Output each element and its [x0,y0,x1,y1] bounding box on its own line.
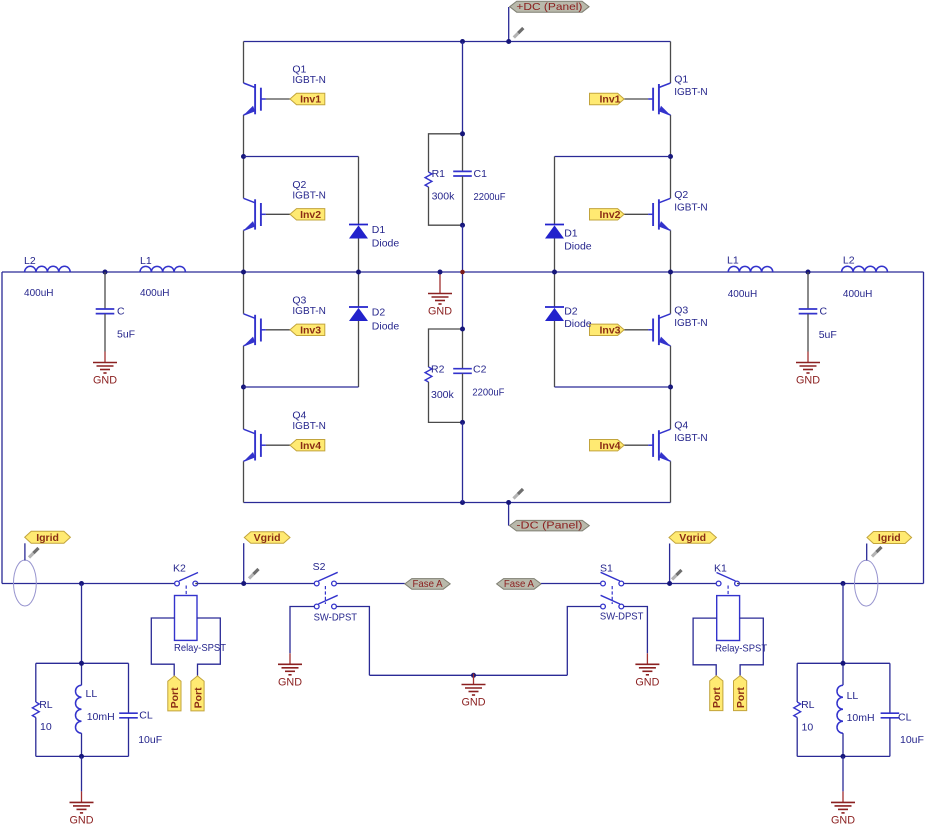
junction load top left [79,661,84,666]
svg-text:400uH: 400uH [140,287,170,299]
wire bottom center rail [369,674,567,676]
svg-text:LL: LL [86,688,98,700]
wire -DC stub [508,503,510,526]
svg-text:Fase A: Fase A [413,578,443,590]
probe marker Igrid left [29,548,39,558]
svg-text:C: C [117,306,125,318]
junction R2C2 top [460,327,465,332]
svg-text:+DC (Panel): +DC (Panel) [516,1,582,13]
svg-text:Inv2: Inv2 [300,209,321,221]
svg-text:GND: GND [93,375,117,387]
svg-text:400uH: 400uH [24,287,54,299]
port flag K2 left [168,676,181,711]
svg-text:K2: K2 [173,563,186,575]
wire D1 chain upper [358,157,360,225]
net Inv3 left [290,324,325,336]
net Inv1 right [590,93,625,105]
wire R1 branch bottom [429,187,463,225]
relay K1 switch [714,563,739,586]
probe Igrid left ellipse [14,560,37,606]
wire S2 lower-left to ground [290,607,314,654]
net Igrid right [867,532,912,545]
junction grid left load [79,581,84,586]
wire grid rail left segment [2,583,175,585]
net Inv4 left [290,440,325,452]
wire R2 branch top [429,329,463,367]
svg-text:Port: Port [192,687,204,709]
capacitor C2 2200uF [453,364,504,399]
svg-text:GND: GND [462,697,486,709]
wire grid rail S2-FaseA [336,583,404,585]
inductor L2 left 400uH [24,255,70,299]
net +DC (Panel) [510,1,589,13]
svg-text:Inv1: Inv1 [300,94,321,106]
svg-text:Inv4: Inv4 [300,440,321,452]
svg-text:Inv4: Inv4 [599,440,620,452]
svg-text:Q2: Q2 [674,189,688,201]
switch S2 SW-DPST [313,561,358,623]
svg-text:2200uF: 2200uF [472,386,504,398]
ground left filter [93,352,117,387]
wire D2 chain lower right [554,321,556,387]
junction load top right [841,661,846,666]
svg-text:GND: GND [831,815,855,827]
port flag K1 right [734,676,747,711]
svg-text:10mH: 10mH [847,712,875,724]
inductor LL 10mH left [76,663,115,756]
wire C2 upper lead [462,329,464,369]
svg-text:Diode: Diode [564,318,592,330]
svg-text:IGBT-N: IGBT-N [674,86,708,98]
wire K1 bracket [693,618,763,676]
svg-text:K1: K1 [714,563,727,575]
capacitor C left 5uF [96,306,135,341]
svg-text:300k: 300k [431,389,455,401]
wire C1 lower lead [462,176,464,225]
net -DC (Panel) [510,520,590,532]
svg-text:Q4: Q4 [674,420,688,432]
resistor RL 10 left [32,663,52,756]
probe marker Vgrid right [672,570,682,580]
wire D2 chain lower [358,321,360,387]
svg-text:D2: D2 [564,306,578,318]
net Fase A right [497,578,541,590]
junction R1C1 bottom [460,223,465,228]
wire Vgrid right stub [669,544,671,584]
wire D2 bottom to right bridge [555,386,671,388]
ground load left [70,791,94,826]
probe marker Vgrid left [249,569,259,579]
junction Vgrid left [241,581,246,586]
svg-text:CL: CL [898,712,912,724]
junction bottom -DC [506,500,511,505]
wire C2 lower lead [462,374,464,423]
probe marker -DC [514,489,524,499]
wire load drop left [81,584,83,664]
svg-text:Igrid: Igrid [36,532,59,544]
wire D1-D2 left [358,239,360,308]
junction top cap chain [460,39,465,44]
junction cap chain mid crossing [460,270,465,275]
ground load right [831,791,855,826]
wire S2 lower-right down [336,607,369,676]
port flag K1 left [710,676,723,711]
wire Igrid right stub [866,544,868,561]
ground center mid rail [428,283,452,318]
svg-text:L1: L1 [727,255,739,267]
junction right bridge mid [668,270,673,275]
wire Igrid left stub [24,543,26,560]
wire grid rail K2-Vgrid [198,583,315,585]
svg-text:10uF: 10uF [900,734,924,746]
net Vgrid left [244,532,290,544]
svg-text:Inv3: Inv3 [300,324,321,336]
junction left filter node [103,270,108,275]
svg-text:Diode: Diode [564,241,592,253]
svg-text:IGBT-N: IGBT-N [674,432,708,444]
svg-text:GND: GND [635,677,659,689]
svg-text:Diode: Diode [372,238,400,250]
diode D1 right [545,225,592,253]
diode D2 right [545,306,592,331]
net Inv2 left [290,209,325,221]
net Inv4 right [590,440,625,452]
wire load box top right [797,662,890,664]
svg-text:Vgrid: Vgrid [254,532,281,544]
transistor Q2 left IGBT-N [244,157,326,273]
ground bottom center [462,674,486,709]
net Inv1 left [290,93,325,105]
svg-text:Fase A: Fase A [504,578,534,590]
ground S1 right [635,653,659,688]
inductor L1 left 400uH [140,255,185,299]
junction bottom cap chain [460,500,465,505]
wire bottom DC- rail [244,502,671,504]
inductor L1 right 400uH [727,255,773,301]
svg-text:D2: D2 [372,307,386,319]
svg-text:LL: LL [847,690,859,702]
transistor Q4 left IGBT-N [244,387,326,503]
svg-text:D1: D1 [564,228,578,240]
svg-text:CL: CL [139,710,153,722]
inductor L2 right 400uH [842,255,888,301]
svg-text:Inv2: Inv2 [599,209,620,221]
svg-text:IGBT-N: IGBT-N [292,420,326,432]
svg-text:5uF: 5uF [819,329,837,341]
net Vgrid right [669,532,716,544]
wire R1 branch top [429,134,463,172]
svg-text:IGBT-N: IGBT-N [292,74,326,86]
wire cap chain top [462,42,464,134]
junction Vgrid right [667,581,672,586]
svg-text:Relay-SPST: Relay-SPST [174,642,227,654]
wire load drop right [842,584,844,664]
wire load ground stub left [81,756,83,791]
junction grid right load [841,581,846,586]
junction R2C2 bottom [460,420,465,425]
switch S1 SW-DPST [600,563,644,623]
svg-text:300k: 300k [432,191,456,203]
ground right filter [796,352,820,387]
junction right diode chain mid [552,270,557,275]
wire mid AC rail [2,271,924,273]
svg-text:IGBT-N: IGBT-N [674,201,708,213]
probe Igrid right ellipse [855,560,878,606]
junction left bridge upper [241,154,246,159]
svg-text:10: 10 [40,721,52,733]
svg-text:L2: L2 [24,255,36,267]
svg-text:RL: RL [801,699,815,711]
svg-text:L1: L1 [140,255,152,267]
svg-text:GND: GND [70,815,94,827]
junction bottom center ground [471,673,476,678]
wire left edge [1,272,3,584]
transistor Q3 left IGBT-N [244,272,326,387]
resistor RL 10 right [794,663,815,756]
svg-text:GND: GND [428,306,452,318]
wire S1 lower-left up from rail [567,607,600,676]
svg-text:SW-DPST: SW-DPST [314,611,358,623]
svg-text:IGBT-N: IGBT-N [674,317,708,329]
junction left bridge mid [241,270,246,275]
net Igrid left [25,531,71,544]
port flag K2 right [191,676,204,711]
svg-text:2200uF: 2200uF [474,191,506,203]
svg-text:10uF: 10uF [138,734,162,746]
relay K1 coil Relay-SPST [715,586,768,655]
net Fase A left [405,578,450,590]
wire cap chain bottom [462,422,464,502]
load left block [0,0,1,1]
wire cap chain middle [462,225,464,329]
junction left diode chain mid [356,270,361,275]
diode D2 left [349,307,399,333]
probe marker Igrid right [872,547,882,557]
capacitor CL 10uF right [881,663,924,756]
capacitor C1 2200uF [453,168,505,203]
wire right edge [923,272,925,584]
svg-text:L2: L2 [843,255,855,267]
svg-text:Q3: Q3 [674,304,688,316]
ground center stub [439,272,441,283]
svg-text:GND: GND [796,375,820,387]
wire Vgrid left stub [243,543,245,583]
svg-text:Vgrid: Vgrid [679,532,706,544]
wire load box top left [36,662,129,664]
svg-text:-DC (Panel): -DC (Panel) [516,520,582,532]
junction left bridge lower [241,385,246,390]
svg-text:Relay-SPST: Relay-SPST [715,643,768,655]
svg-text:SW-DPST: SW-DPST [600,611,644,623]
wire +DC stub [508,7,510,42]
relay K2 coil Relay-SPST [174,586,227,655]
wire load ground stub right [842,756,844,791]
capacitor C right 5uF [799,306,837,342]
wire C filter right upper lead [807,272,809,309]
ground S2 left [278,653,302,688]
wire S1 lower-right to ground [624,607,648,654]
wire load box bottom left [36,755,129,757]
junction load bottom right [841,754,846,759]
svg-text:Port: Port [169,687,181,709]
svg-text:Inv1: Inv1 [599,94,620,106]
diode D1 left [349,224,399,250]
svg-text:10mH: 10mH [87,711,115,723]
probe marker +DC [514,28,524,38]
wire left bridge to D1 top [244,156,359,158]
net Inv2 right [590,209,625,221]
wire D1-D2 right [554,239,556,308]
capacitor CL 10uF left [119,663,162,756]
junction R1C1 top [460,131,465,136]
transistor Q1 left IGBT-N [244,42,326,157]
transistor Q2 right IGBT-N [624,157,708,273]
wire grid rail FaseA-S1 [541,583,601,585]
svg-text:Port: Port [735,687,747,709]
svg-text:IGBT-N: IGBT-N [292,305,326,317]
junction right bridge lower [668,385,673,390]
wire load box bottom right [797,755,890,757]
wire D1 chain upper right [554,157,556,225]
svg-text:Q1: Q1 [674,74,688,86]
net Inv3 right [590,324,625,336]
transistor Q3 right IGBT-N [624,272,708,387]
svg-text:10: 10 [802,722,814,734]
wire C filter left lower lead [104,314,106,352]
transistor Q4 right IGBT-N [624,387,708,503]
wire C filter right lower lead [807,314,809,352]
svg-text:R1: R1 [432,168,446,180]
junction load bottom left [79,754,84,759]
svg-text:Port: Port [711,687,723,709]
resistor R1 300k [425,168,455,203]
svg-text:C1: C1 [474,168,488,180]
svg-text:R2: R2 [431,364,445,376]
svg-text:400uH: 400uH [843,288,873,300]
wire R2 branch bottom [429,382,463,422]
svg-text:5uF: 5uF [117,329,135,341]
wire K2 bracket [151,618,220,676]
svg-text:C2: C2 [473,364,487,376]
inductor LL 10mH right [837,663,875,756]
svg-text:IGBT-N: IGBT-N [292,189,326,201]
wire C filter left upper lead [104,272,106,309]
svg-text:C: C [820,306,828,318]
svg-text:Diode: Diode [372,321,400,333]
junction right filter node [806,270,811,275]
svg-text:S2: S2 [313,561,326,573]
wire grid rail K1-right [739,583,923,585]
relay K2 switch [173,563,198,586]
wire top DC+ rail [244,41,671,43]
svg-text:RL: RL [39,699,53,711]
svg-text:400uH: 400uH [728,288,758,300]
wire C1 upper lead [462,134,464,171]
svg-text:Igrid: Igrid [878,532,901,544]
resistor R2 300k [425,364,454,402]
wire right bridge to D1 top [555,156,671,158]
wire D2 bottom to left bridge [244,386,359,388]
svg-text:D1: D1 [372,224,386,236]
svg-text:Inv3: Inv3 [599,324,620,336]
junction top +DC [506,39,511,44]
svg-text:S1: S1 [600,563,613,575]
transistor Q1 right IGBT-N [624,42,708,157]
junction right bridge upper [668,154,673,159]
junction ground stub [438,270,443,275]
svg-text:GND: GND [278,677,302,689]
wire grid rail S1-K1 [624,583,717,585]
